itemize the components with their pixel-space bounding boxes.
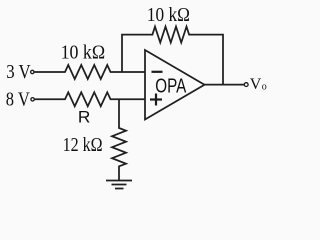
svg-text:10 kΩ: 10 kΩ [147, 4, 190, 26]
svg-text:o: o [262, 82, 267, 93]
svg-text:10 kΩ: 10 kΩ [61, 42, 106, 64]
svg-text:8 V: 8 V [6, 89, 30, 111]
svg-text:R: R [78, 107, 91, 126]
svg-text:OPA: OPA [155, 75, 186, 98]
svg-text:3 V: 3 V [6, 61, 31, 83]
svg-text:12 kΩ: 12 kΩ [63, 134, 103, 156]
svg-text:V: V [250, 76, 262, 93]
